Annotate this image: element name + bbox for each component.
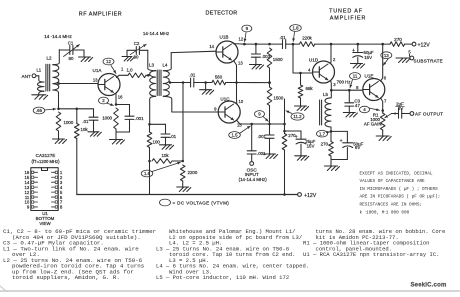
svg-text:47: 47	[355, 103, 360, 108]
svg-text:80: 80	[69, 56, 74, 61]
svg-text:.001: .001	[135, 116, 144, 121]
svg-text:10: 10	[239, 99, 244, 104]
svg-text:ANT: ANT	[22, 74, 31, 79]
svg-text:RESISTANCES ARE IN OHMS;: RESISTANCES ARE IN OHMS;	[360, 203, 423, 208]
svg-text:U1 — RCA CA3127E npn transisto: U1 — RCA CA3127E npn transistor-array IC…	[303, 251, 439, 258]
svg-text:U1A: U1A	[93, 68, 103, 73]
svg-text:11.2: 11.2	[293, 114, 302, 119]
svg-text:RF AMPLIFIER: RF AMPLIFIER	[79, 12, 122, 18]
svg-text:(fT=1200 MHz): (fT=1200 MHz)	[31, 159, 60, 164]
svg-text:= DC VOLTAGE (VTVM): = DC VOLTAGE (VTVM)	[173, 201, 230, 206]
svg-text:U1E: U1E	[365, 74, 374, 79]
svg-text:+12V: +12V	[418, 43, 431, 49]
svg-text:68k: 68k	[306, 86, 314, 91]
svg-text:13: 13	[238, 61, 243, 66]
svg-text:.01: .01	[189, 73, 196, 78]
svg-text:U1D: U1D	[309, 58, 319, 63]
svg-text:EXCEPT AS INDICATED, DECIMAL: EXCEPT AS INDICATED, DECIMAL	[360, 171, 433, 176]
svg-text:+: +	[394, 111, 397, 117]
svg-text:1500: 1500	[273, 57, 283, 62]
svg-text:+12V: +12V	[304, 193, 317, 199]
svg-text:12: 12	[106, 59, 111, 64]
svg-text:100: 100	[153, 140, 161, 145]
svg-text:11: 11	[353, 74, 358, 79]
svg-text:L5: L5	[323, 92, 328, 97]
svg-text:SeekIC.com: SeekIC.com	[410, 283, 446, 289]
svg-text:13: 13	[384, 53, 389, 58]
svg-text:80: 80	[134, 54, 139, 59]
svg-text:.65: .65	[36, 108, 43, 113]
svg-text:1000: 1000	[64, 120, 74, 125]
svg-text:2200: 2200	[188, 170, 198, 175]
svg-text:L5 — Pot-core inductor, 110 mH: L5 — Pot-core inductor, 110 mH. Wind 172	[156, 274, 289, 281]
svg-text:U1C: U1C	[220, 97, 230, 102]
svg-text:6V: 6V	[355, 145, 360, 150]
svg-text:.001: .001	[257, 134, 266, 139]
svg-text:270: 270	[394, 37, 402, 42]
svg-text:.01: .01	[170, 134, 177, 139]
svg-text:VALUES OF CAPACITANCE ARE: VALUES OF CAPACITANCE ARE	[360, 179, 426, 184]
svg-text:14-14.4 MHz: 14-14.4 MHz	[143, 31, 170, 36]
svg-text:L2: L2	[46, 56, 52, 61]
svg-text:.01: .01	[279, 35, 286, 40]
svg-text:U1B: U1B	[220, 35, 229, 40]
svg-text:1.7: 1.7	[319, 131, 326, 136]
svg-text:14 -14.4 MHz: 14 -14.4 MHz	[44, 34, 72, 39]
svg-text:16: 16	[118, 95, 123, 100]
svg-text:+: +	[340, 138, 343, 144]
svg-text:15V: 15V	[364, 55, 372, 60]
svg-text:AF OUTPUT: AF OUTPUT	[415, 112, 443, 117]
svg-text:1500: 1500	[274, 96, 284, 101]
svg-text:L3: L3	[149, 63, 154, 68]
svg-text:(14-14.4 MHz): (14-14.4 MHz)	[239, 177, 268, 182]
svg-text:IN MICROFARADS ( µF ) ; OTHERS: IN MICROFARADS ( µF ) ; OTHERS	[360, 187, 439, 192]
svg-text:L1: L1	[36, 68, 41, 73]
svg-text:AMPLIFIER: AMPLIFIER	[330, 16, 367, 22]
svg-text:15: 15	[237, 122, 242, 127]
svg-text:13: 13	[93, 78, 98, 83]
svg-text:.01: .01	[82, 119, 89, 124]
svg-text:SUBSTRATE: SUBSTRATE	[414, 59, 443, 64]
svg-text:1.8: 1.8	[292, 26, 299, 31]
svg-text:DETECTOR: DETECTOR	[206, 11, 238, 17]
svg-text:k ⋅1000, M⋅1 000 000: k ⋅1000, M⋅1 000 000	[360, 210, 410, 215]
svg-text:VIEW: VIEW	[39, 221, 51, 226]
svg-text:L4: L4	[163, 63, 168, 68]
svg-text:C2: C2	[134, 41, 140, 46]
svg-text:CA3127E: CA3127E	[36, 153, 56, 158]
svg-text:10k: 10k	[81, 127, 89, 132]
svg-text:1.5: 1.5	[231, 133, 238, 138]
svg-text:10k: 10k	[161, 153, 169, 158]
svg-text:C1: C1	[68, 41, 74, 46]
svg-text:1000: 1000	[102, 116, 112, 121]
svg-text:15V: 15V	[307, 143, 315, 148]
svg-text:1.0: 1.0	[126, 67, 133, 72]
svg-text:560: 560	[215, 75, 223, 80]
svg-text:12: 12	[239, 37, 244, 42]
svg-text:14: 14	[209, 44, 214, 49]
svg-text:+: +	[352, 48, 355, 54]
svg-text:270: 270	[288, 133, 296, 138]
svg-text:toroid suppliers, Amidon, G. R: toroid suppliers, Amidon, G. R.	[12, 274, 120, 281]
svg-text:ARE IN PICOFARADS ( pF OR µµF): ARE IN PICOFARADS ( pF OR µµF);	[360, 195, 441, 200]
svg-text:TUNED AF: TUNED AF	[329, 9, 363, 15]
svg-text:220k: 220k	[302, 36, 312, 41]
svg-text:270: 270	[321, 142, 329, 147]
svg-text:AF GAIN: AF GAIN	[364, 121, 382, 126]
svg-text:700 Hz: 700 Hz	[337, 80, 351, 85]
